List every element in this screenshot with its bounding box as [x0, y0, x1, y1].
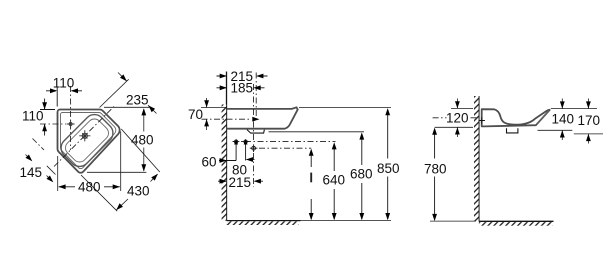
drain height dimension line (unlabeled)	[310, 151, 312, 220]
floor hatch	[227, 221, 299, 225]
svg-text:170: 170	[578, 113, 601, 128]
svg-text:640: 640	[323, 173, 346, 188]
svg-text:215: 215	[229, 175, 252, 190]
dimension 780	[434, 130, 436, 220]
svg-text:110: 110	[53, 75, 75, 90]
basin outer outline (plan)	[57, 109, 119, 172]
target symbol on line B	[250, 144, 258, 152]
svg-text:140: 140	[552, 111, 575, 126]
floor line	[227, 220, 301, 222]
floor line extension (dimension baseline)	[301, 220, 392, 222]
wall hatch	[474, 96, 479, 221]
dimension 680	[361, 135, 363, 220]
basin section outline	[227, 107, 298, 128]
dimension 70	[201, 98, 226, 130]
dimension 80	[247, 159, 255, 161]
fixing cross on wall	[479, 117, 485, 123]
svg-text:480: 480	[78, 179, 101, 194]
basin side profile	[482, 109, 550, 126]
wall hatch	[222, 105, 227, 221]
dimension 235 (chamfer)	[100, 73, 157, 114]
mounting line A (dash-dot)	[233, 141, 336, 143]
tap centerline (vertical dash-dot)	[255, 73, 257, 123]
svg-text:145: 145	[20, 165, 43, 180]
short diagonal dash-dot near 145	[33, 139, 45, 151]
floor line	[479, 220, 554, 222]
mounting line B (dash-dot with target)	[259, 147, 311, 149]
dimension 120	[433, 117, 478, 119]
svg-text:70: 70	[188, 107, 203, 122]
dimension 215 (bottom)	[218, 180, 263, 182]
svg-text:185: 185	[231, 81, 254, 96]
floor hatch	[479, 222, 553, 226]
dimension 640	[333, 145, 335, 220]
drain fitting under basin	[247, 130, 264, 134]
svg-text:235: 235	[126, 93, 149, 108]
dimension 215 (top)	[217, 75, 268, 77]
dimension 480 (bottom)	[58, 132, 121, 192]
fixing hole marker V1	[233, 139, 239, 161]
extension line from fitting to 680	[269, 131, 365, 133]
drain centerline (vertical dash-dot)	[253, 84, 255, 140]
dimension 185	[217, 87, 265, 89]
extension line from basin top to 850	[299, 107, 391, 109]
dimension 480 (right vertical)	[87, 107, 150, 172]
tap hole symbol	[67, 120, 75, 128]
basin front lip inner line	[537, 110, 549, 123]
dimension 110 (left)	[40, 99, 55, 136]
wall line	[478, 96, 480, 221]
dimension 850	[387, 110, 389, 219]
svg-text:60: 60	[202, 155, 217, 170]
bowl outer outline (plan, rotated)	[57, 110, 117, 170]
tap height centerline with arrow	[202, 118, 251, 120]
dimension 430 (front diagonal)	[81, 129, 160, 211]
basin inner rim line (plan)	[60, 112, 115, 168]
dimension 110 (top)	[46, 87, 82, 107]
drain stub	[507, 128, 518, 133]
wall line	[226, 72, 228, 221]
dimension 140	[538, 99, 598, 141]
fixing hole marker V2	[242, 139, 248, 161]
tap hole centerline (vertical dash-dot)	[70, 86, 72, 150]
drain symbol	[79, 130, 90, 141]
svg-text:110: 110	[22, 108, 44, 123]
svg-text:780: 780	[424, 161, 447, 176]
dimension 170	[574, 99, 603, 144]
dimension 60	[219, 160, 236, 162]
svg-text:850: 850	[377, 161, 400, 176]
bowl axis centerline (diagonal dash-dot)	[54, 107, 114, 167]
svg-text:430: 430	[127, 183, 150, 198]
svg-text:480: 480	[131, 132, 154, 147]
dimension 145 (bottom-left chamfer)	[26, 155, 56, 182]
svg-text:680: 680	[350, 167, 373, 182]
svg-text:120: 120	[446, 110, 469, 125]
bowl inner outline (plan, rotated)	[63, 116, 112, 165]
